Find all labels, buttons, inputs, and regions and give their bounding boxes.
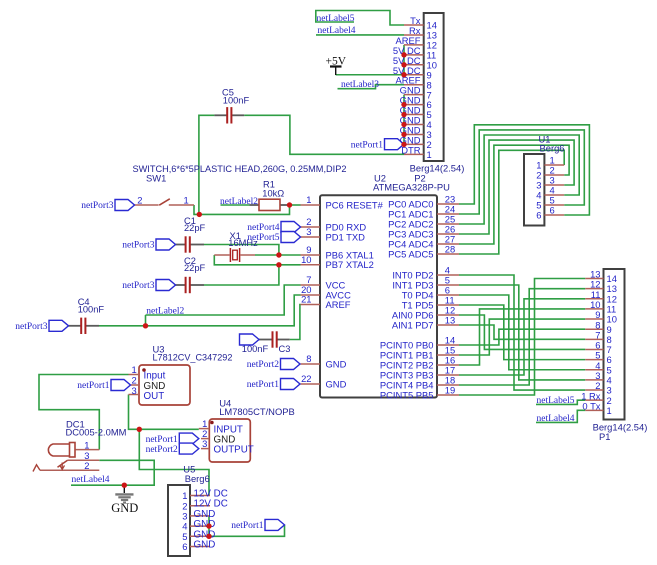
svg-text:1: 1 (84, 439, 89, 450)
wire C2 to U2 pin 10 node (204, 265, 279, 285)
svg-text:5V DC: 5V DC (393, 65, 421, 76)
wire netLabel4 to GND node (71, 484, 124, 486)
svg-text:7: 7 (607, 344, 612, 355)
svg-text:13: 13 (607, 283, 617, 294)
svg-text:netPort2: netPort2 (247, 360, 279, 370)
connector U5 Berg6 (168, 463, 228, 556)
pin 4 (GND) (190, 525, 210, 527)
junction at R1 output node (287, 202, 292, 207)
net port netPort3 at C1 (122, 239, 175, 251)
wire C1 to U2 pin 9 node (204, 245, 279, 256)
pin 5 (D4) (585, 369, 603, 371)
svg-text:11: 11 (427, 49, 437, 60)
svg-text:P1: P1 (599, 431, 610, 442)
wire X1 right to U2 pin 9 (255, 254, 301, 256)
svg-text:netPort1: netPort1 (77, 381, 109, 391)
svg-text:2: 2 (427, 139, 432, 150)
net label netLabel4 at P1 (537, 414, 575, 424)
net port at C3 (240, 334, 260, 345)
pin 4 (GND) (404, 124, 424, 126)
net port netPort5 at U2 pin 3 (247, 232, 300, 244)
net label netLabel5 (317, 14, 355, 24)
svg-text:PB7 XTAL2: PB7 XTAL2 (326, 259, 374, 270)
junction at U2 pin 10 (276, 262, 281, 267)
svg-text:100nF: 100nF (223, 96, 250, 106)
svg-text:13: 13 (427, 30, 437, 41)
svg-text:2: 2 (137, 195, 142, 206)
svg-text:6: 6 (595, 340, 600, 351)
pin 4 (544, 194, 564, 196)
junction at C4/netLabel2 node (143, 323, 148, 328)
net port netPort2 at U2 pin 8 (247, 359, 300, 371)
junction at P2 pin 6 (401, 102, 406, 107)
svg-text:netPort3: netPort3 (122, 281, 154, 291)
pin 23 (PC0 ADC0) (437, 203, 459, 205)
pin 2 (PD0 RXD) (301, 226, 321, 228)
pin 12 (D11) (585, 298, 603, 300)
junction at P2 pin 4 (401, 122, 406, 127)
svg-text:5: 5 (607, 364, 612, 375)
capacitor C2 22pF (176, 256, 206, 293)
pin 3 (GND) (404, 133, 424, 135)
regulator U4 LM7805 (199, 398, 295, 463)
net label netLabel5 at P1 (537, 396, 575, 406)
svg-text:3: 3 (427, 129, 432, 140)
svg-text:AIN1 PD7: AIN1 PD7 (392, 319, 434, 330)
pin 14 (D13) (585, 278, 603, 280)
svg-text:netLabel5: netLabel5 (317, 14, 355, 24)
svg-text:8: 8 (306, 353, 311, 364)
wire U2 pin 24 to U1 pin 5 (459, 130, 584, 214)
svg-text:GND: GND (326, 378, 347, 389)
svg-text:8: 8 (427, 79, 432, 90)
svg-text:GND: GND (111, 501, 138, 515)
wire netLabel4 to P1 pin 1 (Tx) (536, 410, 585, 422)
DC jack DC1 DC005-2.0MM (33, 418, 127, 471)
svg-text:netPort1: netPort1 (351, 140, 383, 150)
capacitor C5 100nF (214, 88, 249, 124)
svg-text:6: 6 (182, 541, 187, 552)
pin 16 (PCINT2 PB2) (437, 364, 459, 366)
net port netPort1 at P2 pin 2 (351, 139, 404, 151)
pin 7 (VCC) (301, 284, 321, 286)
svg-text:GND: GND (194, 540, 216, 551)
svg-text:L7812CV_C347292: L7812CV_C347292 (153, 353, 233, 363)
pin 10 (D9) (585, 318, 603, 320)
wire C3 to U2 AREF pin 21 (290, 305, 301, 340)
junction at P2 pin 5 (401, 112, 406, 117)
pin 13 (Rx) (404, 34, 424, 36)
svg-text:7: 7 (427, 89, 432, 100)
wire netLabel2 to R1 (221, 204, 250, 206)
svg-text:4: 4 (595, 360, 600, 371)
pin 3 (544, 184, 564, 186)
svg-text:9: 9 (595, 309, 600, 320)
svg-text:netLabel4: netLabel4 (72, 475, 110, 485)
svg-text:5V DC: 5V DC (393, 55, 421, 66)
wire GND bus P2 pins 7-2 (403, 95, 405, 145)
pin 28 (PC5 ADC5) (437, 253, 459, 255)
wire U2 pin 13 (PD7) to P1 pin 8 (459, 325, 585, 339)
svg-text:3: 3 (131, 385, 136, 396)
svg-text:2: 2 (607, 395, 612, 406)
svg-text:netPort1: netPort1 (231, 521, 263, 531)
wire U2 pin 28 to U1 pin 1 (459, 150, 564, 254)
power flag +5V (326, 56, 347, 76)
pin 18 (PCINT4 PB4) (437, 384, 459, 386)
svg-text:1: 1 (306, 194, 311, 205)
net port netPort1 at U3 pin 2 (77, 380, 130, 392)
svg-text:13: 13 (445, 315, 455, 326)
svg-text:AREF: AREF (326, 299, 351, 310)
wire U2 pin 26 to U1 pin 3 (459, 140, 574, 234)
wire U2 pin 5 (PD3) to P1 pin 4 (459, 285, 585, 380)
svg-text:19: 19 (445, 385, 455, 396)
switch SW1 (133, 164, 347, 206)
svg-text:netPort1: netPort1 (146, 435, 178, 445)
svg-text:12: 12 (590, 279, 600, 290)
svg-text:netPort3: netPort3 (81, 201, 113, 211)
svg-text:GND: GND (326, 358, 347, 369)
wire netLabel2 to U2 VCC pin 7 (146, 285, 301, 315)
wire netLabel5 to P1 pin 2 (Rx) (536, 400, 585, 404)
svg-text:8: 8 (607, 334, 612, 345)
connector P1 Berg14(2.54) (581, 269, 647, 443)
net label netLabel2 at R1 (220, 197, 258, 207)
wire U2 pin 15 (PB1) to P1 pin 10 (459, 319, 585, 355)
pin 10 (5V DC) (404, 64, 424, 66)
net port netPort1 at U5 (231, 519, 284, 531)
pin 15 (PCINT1 PB1) (437, 354, 459, 356)
svg-text:9: 9 (607, 324, 612, 335)
pin 11 (D10) (585, 308, 603, 310)
wire U2 pin 11 (PD5) to P1 pin 6 (459, 305, 585, 360)
svg-text:10: 10 (301, 254, 311, 265)
pin 3 (PD1 TXD) (301, 236, 321, 238)
pin 8 (GND) (301, 363, 321, 365)
junction at GND node (122, 483, 127, 488)
svg-text:netPort3: netPort3 (15, 322, 47, 332)
wire netLabel2 down to C4 net (145, 315, 147, 326)
net port netPort3 at SW1 pin 2 (81, 200, 134, 212)
wire U2 pin 6 (PD4) to P1 pin 5 (459, 295, 585, 370)
wire U3 OUT to U4 INPUT node (129, 395, 199, 430)
wire C5 left to SW1/R1 node (199, 115, 215, 214)
svg-text:10: 10 (607, 314, 617, 325)
pin 6 (T0 PD4) (437, 294, 459, 296)
pin 9 (5V DC) (404, 74, 424, 76)
svg-text:3: 3 (202, 438, 207, 449)
pin 1 (DTR) (404, 153, 424, 155)
wire X1 left to U2 pin 10 node (214, 255, 300, 265)
pin 5 (INT1 PD3) (437, 284, 459, 286)
pin 6 (D5) (585, 359, 603, 361)
svg-text:22pF: 22pF (184, 263, 206, 273)
net port netPort1 at U4 pin 2 (146, 433, 199, 445)
svg-text:2: 2 (84, 460, 89, 471)
net port netPort3 at C2 (122, 280, 175, 292)
svg-text:OUT: OUT (144, 391, 165, 402)
pin 12 (AREF) (404, 44, 424, 46)
pin 20 (AVCC) (301, 294, 321, 296)
junction at U5 pin 5 (206, 534, 211, 539)
pin 7 (D6) (585, 348, 603, 350)
svg-text:LM7805CT/NOPB: LM7805CT/NOPB (219, 406, 295, 417)
svg-text:Berg6: Berg6 (185, 473, 210, 484)
wire U2 pin 16 (PB2) to P1 pin 11 (459, 309, 585, 365)
pin 5 (544, 204, 564, 206)
svg-text:GND: GND (400, 85, 421, 96)
ground GND flag (111, 485, 138, 515)
pin 4 (D3) (585, 379, 603, 381)
svg-text:22: 22 (301, 373, 311, 384)
connector U1 Berg6 (524, 133, 565, 225)
pin 1 (12V DC) (190, 495, 210, 497)
svg-text:8: 8 (595, 319, 600, 330)
svg-text:Tx: Tx (410, 15, 421, 26)
pin 2 (12V DC) (190, 505, 210, 507)
svg-text:Berg6: Berg6 (540, 142, 565, 153)
pin 11 (5V DC) (404, 54, 424, 56)
wire U2 pin 25 to U1 pin 4 (459, 135, 579, 224)
pin 1 (PC6 RESET#) (301, 204, 321, 206)
svg-text:2: 2 (131, 375, 136, 386)
svg-text:10: 10 (427, 59, 437, 70)
wire C5 right to P2 pin 1 (DTR) (244, 115, 404, 154)
pin 1 (D0 Tx) (585, 409, 603, 411)
pin 2 (GND) (404, 143, 424, 145)
pin 6 (544, 214, 564, 216)
svg-text:11: 11 (607, 304, 617, 315)
wire U2 pin 14 (PB0) to P1 pin 9 (459, 329, 585, 345)
pin 26 (PC3 ADC3) (437, 233, 459, 235)
svg-text:1: 1 (607, 405, 612, 416)
junction at P2 pin 9 (401, 72, 406, 77)
pin 25 (PC2 ADC2) (437, 223, 459, 225)
svg-text:3: 3 (595, 370, 600, 381)
crystal X1 16MHz (214, 231, 258, 262)
pin 17 (PCINT3 PB3) (437, 374, 459, 376)
svg-text:6: 6 (607, 354, 612, 365)
connector P2 Berg14(2.54) (393, 13, 464, 184)
svg-text:2: 2 (595, 380, 600, 391)
junction at P2 pin 3 (401, 132, 406, 137)
svg-text:C3: C3 (279, 344, 291, 354)
svg-text:3: 3 (306, 226, 311, 237)
svg-text:6: 6 (550, 205, 555, 216)
svg-text:13: 13 (590, 269, 600, 280)
svg-text:5: 5 (595, 350, 600, 361)
pin 14 (PCINT0 PB0) (437, 344, 459, 346)
regulator U3 L7812CV (129, 343, 233, 405)
svg-text:6: 6 (427, 99, 432, 110)
capacitor C3 100nF (242, 331, 291, 354)
pin 6 (GND) (404, 104, 424, 106)
svg-text:4: 4 (607, 375, 612, 386)
svg-text:PD1 TXD: PD1 TXD (326, 231, 366, 242)
wire U5 pin 5 to netPort1 (209, 525, 285, 536)
svg-text:netLabel2: netLabel2 (146, 306, 184, 316)
wire netLabel3 to P2 pin 8 (AREF) (338, 85, 405, 89)
svg-text:16MHz: 16MHz (228, 238, 258, 248)
pin 8 (AREF) (404, 84, 424, 86)
junction at P2 pin 11 (401, 52, 406, 57)
pin 10 (PB7 XTAL2) (301, 264, 321, 266)
svg-text:6: 6 (536, 210, 541, 221)
wire U2 pin 27 to U1 pin 2 (459, 145, 569, 244)
svg-text:12: 12 (607, 293, 617, 304)
svg-text:1 Rx: 1 Rx (581, 390, 601, 401)
wire U2 pin 4 (PD2) to P1 pin 3 (459, 275, 585, 390)
svg-text:10kΩ: 10kΩ (262, 188, 284, 198)
pin 5 (GND) (404, 114, 424, 116)
pin 6 (GND) (190, 546, 210, 548)
svg-text:12: 12 (427, 40, 437, 51)
net port netPort1 at U2 pin 22 (247, 379, 300, 391)
junction at P2 pin 10 (401, 62, 406, 67)
pin 22 (GND) (301, 383, 321, 385)
svg-text:SW1: SW1 (146, 172, 166, 183)
svg-text:1: 1 (427, 149, 432, 160)
capacitor C4 100nF (69, 297, 105, 334)
wire U2 pin 17 (PB3) to P1 pin 12 (459, 299, 585, 375)
pin 5 (GND) (190, 535, 210, 537)
pin 24 (PC1 ADC1) (437, 213, 459, 215)
junction at U5 pin 4 (206, 523, 211, 528)
pin 11 (T1 PD5) (437, 304, 459, 306)
svg-text:21: 21 (301, 294, 311, 305)
svg-text:netPort2: netPort2 (146, 445, 178, 455)
svg-text:ATMEGA328P-PU: ATMEGA328P-PU (373, 181, 450, 192)
wire U2 pin 12 (PD6) to P1 pin 7 (459, 315, 585, 349)
pin 13 (D12) (585, 288, 603, 290)
net port netPort3 at C4 (15, 320, 68, 332)
svg-text:4: 4 (427, 119, 432, 130)
svg-text:22pF: 22pF (184, 223, 206, 233)
net label netLabel4 at GND (72, 475, 110, 485)
svg-text:AREF: AREF (395, 35, 420, 46)
pin 7 (GND) (404, 94, 424, 96)
svg-text:100nF: 100nF (78, 304, 105, 314)
svg-text:28: 28 (445, 244, 455, 255)
svg-text:10: 10 (590, 299, 600, 310)
wire C4 to U2 AVCC pin 20 (99, 295, 301, 326)
wire U3 Input to DC1 pin 1 (39, 375, 129, 450)
svg-text:9: 9 (427, 69, 432, 80)
pin 9 (PB6 XTAL1) (301, 254, 321, 256)
wire SW1 pin 1 to node (194, 205, 199, 214)
net port netPort4 at U2 pin 2 (247, 222, 300, 234)
wire GND bus U5 pins 3-5 (208, 516, 210, 536)
svg-text:Rx: Rx (409, 25, 421, 36)
svg-text:5: 5 (427, 109, 432, 120)
wire 12V node down to U5 pin 1 (139, 429, 209, 495)
net label netLabel3 (341, 80, 379, 90)
wire +5V to P2 pin 9 (336, 74, 404, 76)
net label netLabel4 (318, 26, 356, 36)
pin 4 (INT0 PD2) (437, 274, 459, 276)
svg-text:netLabel4: netLabel4 (318, 26, 356, 36)
capacitor C1 22pF (176, 216, 206, 253)
pin 3 (D2) (585, 389, 603, 391)
pin 2 (D1 Rx) (585, 399, 603, 401)
pin 27 (PC4 ADC4) (437, 243, 459, 245)
svg-text:netLabel4: netLabel4 (537, 414, 575, 424)
junction at U3 OUT / U4 INPUT node (137, 427, 142, 432)
pin 1 (544, 164, 564, 166)
svg-text:14: 14 (607, 273, 617, 284)
wire R1 to U2 pin 1 (288, 204, 301, 206)
op-amp U2 ATMEGA328P-PU (301, 173, 460, 401)
net port netPort2 at U4 pin 3 (146, 443, 199, 455)
svg-text:3: 3 (607, 385, 612, 396)
pin 9 (D8) (585, 328, 603, 330)
pin 19 (PCINT5 PB5) (437, 394, 459, 396)
svg-text:5V DC: 5V DC (393, 45, 421, 56)
net label netLabel2 at VCC (146, 306, 184, 316)
junction at P2 pin 2 (401, 142, 406, 147)
svg-text:AREF: AREF (395, 75, 420, 86)
svg-text:0 Tx: 0 Tx (582, 400, 600, 411)
pin 2 (544, 174, 564, 176)
svg-text:netLabel3: netLabel3 (341, 80, 379, 90)
pin 14 (Tx) (404, 24, 424, 26)
junction at U2 pin 9 (276, 252, 281, 257)
svg-text:DC005-2.0MM: DC005-2.0MM (66, 427, 127, 438)
wire U2 pin 18 (PB4) to P1 pin 13 (459, 289, 585, 385)
junction at SW1/C5 node (197, 212, 202, 217)
wire node to R1 output node (199, 205, 289, 214)
svg-text:netPort1: netPort1 (247, 380, 279, 390)
pin 12 (AIN0 PD6) (437, 314, 459, 316)
wire DC1 pin 3 to GND node (99, 460, 154, 485)
svg-text:1: 1 (183, 195, 188, 206)
svg-text:14: 14 (427, 20, 437, 31)
pin 13 (AIN1 PD7) (437, 324, 459, 326)
svg-text:1: 1 (131, 364, 136, 375)
svg-text:netPort4: netPort4 (247, 223, 279, 233)
svg-text:7: 7 (595, 329, 600, 340)
svg-text:PC5 ADC5: PC5 ADC5 (388, 248, 433, 259)
svg-text:netLabel5: netLabel5 (537, 396, 575, 406)
svg-text:OUTPUT: OUTPUT (214, 445, 254, 456)
svg-text:PCINT5 PB5: PCINT5 PB5 (380, 389, 434, 400)
wire netLabel4 to P2 pin 13 (Rx) (316, 34, 404, 36)
svg-text:11: 11 (591, 289, 601, 300)
pin 21 (AREF) (301, 304, 321, 306)
pin 3 (GND) (190, 515, 210, 517)
pin 8 (D7) (585, 338, 603, 340)
svg-text:PC6 RESET#: PC6 RESET# (326, 199, 384, 210)
wire U2 pin 19 (PB5) to P1 pin 14 (459, 279, 585, 396)
svg-text:netPort3: netPort3 (122, 241, 154, 251)
wire netLabel5 to P2 pin 14 (Tx) (316, 11, 404, 26)
wire 5VDC bus P2 pins 12-9 (403, 45, 405, 75)
resistor R1 10k (250, 180, 289, 211)
wire U2 pin 23 to U1 pin 6 (459, 125, 589, 215)
